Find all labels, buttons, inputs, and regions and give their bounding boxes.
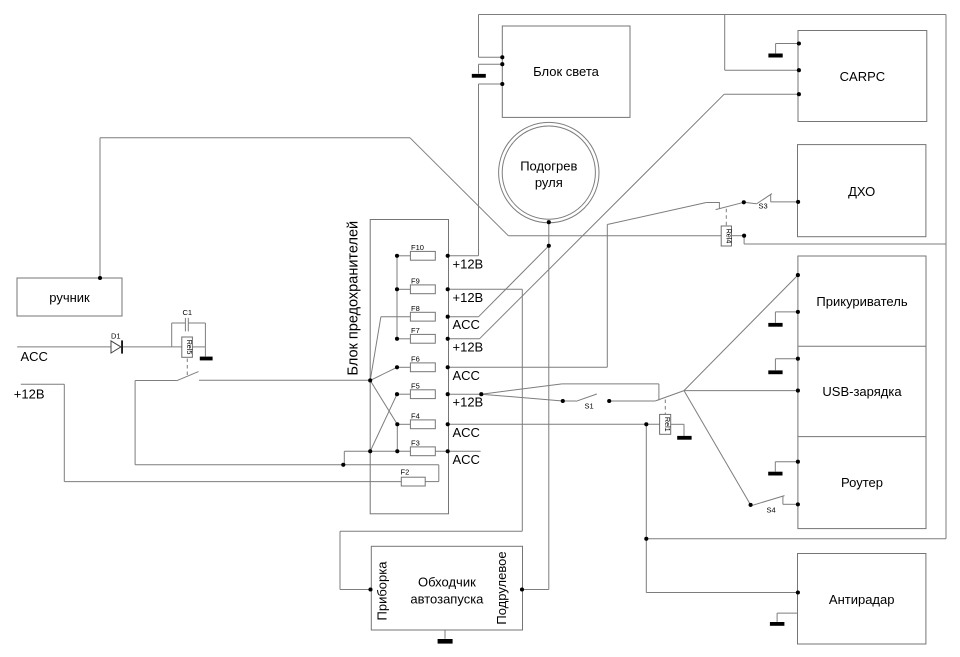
svg-text:ACC: ACC: [453, 425, 480, 440]
svg-text:F7: F7: [411, 326, 420, 335]
svg-text:Rel5: Rel5: [185, 340, 194, 355]
svg-text:S1: S1: [585, 402, 594, 411]
svg-text:руля: руля: [535, 175, 563, 190]
svg-text:Прикуриватель: Прикуриватель: [816, 294, 907, 309]
svg-text:Блок света: Блок света: [533, 64, 600, 79]
svg-text:F9: F9: [411, 277, 420, 286]
svg-text:Подрулевое: Подрулевое: [494, 551, 509, 624]
svg-text:ACC: ACC: [453, 368, 480, 383]
svg-text:Роутер: Роутер: [841, 475, 883, 490]
svg-text:F3: F3: [411, 439, 420, 448]
svg-text:Приборка: Приборка: [375, 561, 390, 621]
svg-text:S4: S4: [767, 506, 776, 515]
svg-text:Rel1: Rel1: [663, 417, 672, 432]
svg-text:C1: C1: [183, 308, 193, 317]
svg-text:+12В: +12В: [453, 290, 484, 305]
svg-text:CARPC: CARPC: [840, 69, 886, 84]
svg-text:F2: F2: [401, 468, 410, 477]
svg-text:ACC: ACC: [453, 452, 480, 467]
svg-text:D1: D1: [111, 332, 121, 341]
svg-text:S3: S3: [759, 202, 768, 211]
svg-text:Обходчик: Обходчик: [418, 575, 476, 590]
svg-text:Rel4: Rel4: [724, 229, 733, 244]
svg-text:F6: F6: [411, 355, 420, 364]
svg-text:ACC: ACC: [453, 317, 480, 332]
svg-text:Блок предохранителей: Блок предохранителей: [346, 221, 362, 376]
svg-text:F10: F10: [411, 243, 424, 252]
svg-text:+12В: +12В: [453, 256, 484, 271]
svg-text:F8: F8: [411, 304, 420, 313]
svg-text:+12В: +12В: [14, 387, 45, 402]
svg-text:F4: F4: [411, 412, 420, 421]
svg-text:F5: F5: [411, 381, 420, 390]
svg-text:ДХО: ДХО: [848, 184, 875, 199]
svg-text:+12В: +12В: [453, 339, 484, 354]
svg-text:USB-зарядка: USB-зарядка: [822, 384, 902, 399]
svg-text:автозапуска: автозапуска: [410, 592, 484, 607]
svg-text:Антирадар: Антирадар: [829, 592, 895, 607]
svg-text:+12В: +12В: [453, 395, 484, 410]
svg-text:ручник: ручник: [49, 290, 90, 305]
svg-text:Подогрев: Подогрев: [520, 159, 577, 174]
svg-text:ACC: ACC: [21, 349, 48, 364]
